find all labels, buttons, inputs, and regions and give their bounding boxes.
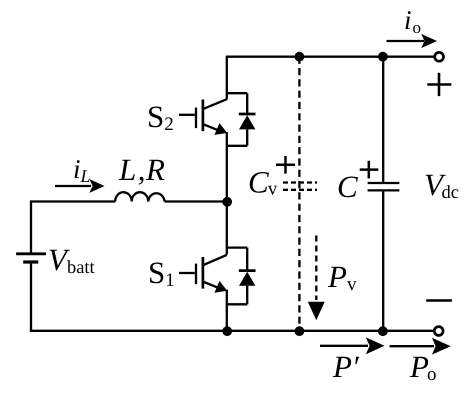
node dashed top junction — [295, 52, 305, 62]
node dashed bottom junction — [295, 326, 305, 336]
terminal bottom output — [434, 327, 443, 336]
svg-text:S2: S2 — [147, 99, 174, 135]
label minus output — [426, 299, 452, 302]
wire top rail — [227, 56, 435, 58]
battery Vbatt — [16, 254, 46, 262]
wire S1 emitter to bottom rail — [226, 290, 228, 332]
node midpoint junction — [222, 197, 232, 207]
arrow iL — [55, 179, 105, 193]
diode D2 — [227, 93, 256, 146]
arrow P' — [320, 337, 385, 354]
wire battery top — [30, 200, 32, 253]
wire mid rail right — [165, 200, 227, 202]
wire dashed virtual branch — [298, 57, 300, 331]
wire mid rail left — [31, 200, 115, 202]
svg-text:Pv: Pv — [327, 259, 357, 295]
wire C branch top — [382, 57, 384, 182]
diode D1 — [227, 248, 256, 305]
wire S1 collector drop — [226, 202, 228, 255]
transistor Q S1 (IGBT) — [179, 255, 227, 293]
svg-text:S1: S1 — [148, 255, 175, 291]
svg-text:Vbatt: Vbatt — [48, 242, 96, 278]
label plus Cv — [276, 156, 295, 174]
wire battery bottom — [30, 262, 32, 332]
svg-text:io: io — [404, 5, 421, 37]
wire bottom rail — [30, 330, 434, 332]
node C top junction — [378, 52, 388, 62]
terminal top output — [435, 52, 444, 61]
arrow Pv dashed — [308, 236, 325, 321]
wire S2 emitter to midpoint — [226, 132, 228, 202]
node S1 emitter junction — [222, 326, 232, 336]
svg-text:P′: P′ — [332, 349, 360, 384]
arrow io — [387, 34, 438, 48]
node C bottom junction — [378, 326, 388, 336]
wire S2 collector drop — [226, 56, 228, 100]
svg-text:iL: iL — [73, 154, 91, 186]
label plus C — [360, 161, 379, 179]
svg-text:L,R: L,R — [118, 152, 165, 187]
label plus output — [427, 73, 451, 96]
wire C branch bottom — [382, 192, 384, 331]
capacitor Cv dashed plates — [283, 183, 317, 190]
arrow Po — [390, 338, 451, 355]
svg-text:C: C — [337, 169, 358, 204]
svg-text:Vdc: Vdc — [424, 167, 459, 203]
svg-text:Cv: Cv — [248, 165, 278, 200]
capacitor C — [368, 183, 400, 190]
transistor Q S2 (IGBT) — [179, 99, 227, 135]
inductor L,R — [115, 192, 164, 201]
